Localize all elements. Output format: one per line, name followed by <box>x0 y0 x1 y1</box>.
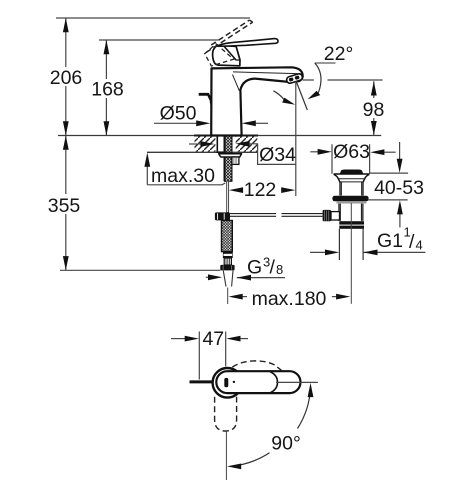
label O63 <box>333 141 370 163</box>
seal ring <box>332 196 368 202</box>
drain pop-up waste body <box>332 170 369 304</box>
hose connection nut G3/8 <box>220 265 234 271</box>
pull rod knob <box>199 93 212 108</box>
plug cap <box>340 170 363 174</box>
dimension G3/8 leader <box>206 274 285 280</box>
top view pull rod <box>190 380 213 383</box>
label 206 <box>50 67 83 89</box>
body below seal <box>339 204 363 221</box>
svg-text:G1: G1 <box>377 230 403 252</box>
thread rings <box>339 221 364 224</box>
pop-up tee fitting <box>215 212 230 220</box>
label O50 <box>160 103 197 125</box>
90 degree arc <box>227 383 313 469</box>
label O34 <box>259 144 296 166</box>
spout inner chamfer line <box>233 75 240 91</box>
counter bottom reference line <box>147 151 257 153</box>
dimension 47 arrows <box>171 336 248 342</box>
spout outlet extension line <box>295 82 297 197</box>
dimension O34 arrows <box>189 141 296 164</box>
faucet body and spout silhouette <box>211 67 303 135</box>
svg-text:Ø63: Ø63 <box>333 141 370 163</box>
mounting nut block <box>232 157 239 164</box>
svg-text:Ø50: Ø50 <box>160 103 197 125</box>
label 40-53 <box>374 177 424 199</box>
label 122 <box>244 179 277 201</box>
hose ribbed collar <box>224 258 231 265</box>
label 47 <box>202 328 224 350</box>
supply hose braided <box>222 221 233 252</box>
dimension 98 line <box>371 81 377 135</box>
svg-text:47: 47 <box>202 328 224 350</box>
tailpipe walls <box>339 229 363 260</box>
faucet center line below hose <box>227 288 229 305</box>
mounting shank threaded rod <box>224 136 232 181</box>
O63 extension lines <box>332 144 370 174</box>
svg-text:206: 206 <box>50 67 83 89</box>
water stream line <box>296 82 307 111</box>
handle lever blade solid <box>216 39 278 47</box>
svg-text:/: / <box>409 231 415 253</box>
aerator capsule <box>286 73 303 84</box>
label 22 degrees <box>315 43 353 65</box>
top view handle stadium <box>216 371 300 393</box>
reference line handle level (168) <box>99 39 218 41</box>
dimension 206 line <box>63 18 69 136</box>
hose tail lines <box>223 271 233 287</box>
svg-text:Ø34: Ø34 <box>259 144 296 166</box>
svg-text:max.180: max.180 <box>252 288 327 310</box>
svg-text:90°: 90° <box>271 433 301 455</box>
top view handle slot <box>224 378 235 387</box>
dimension 122 arrows <box>229 187 296 193</box>
pop-up rod vertical <box>227 181 229 213</box>
drain knurled knob <box>323 210 340 221</box>
top view horizontal reference line <box>276 381 318 383</box>
svg-text:/: / <box>270 257 276 279</box>
flange <box>334 174 370 182</box>
drain center line <box>350 203 352 304</box>
mounting shank smooth tube <box>217 136 224 152</box>
22 degree arc with arrow <box>306 63 321 102</box>
hose end reference line (355 bottom) <box>60 269 220 271</box>
svg-text:max.30: max.30 <box>151 165 215 187</box>
reference line top (206 level) <box>56 17 250 19</box>
dimension G1 1/4 <box>310 250 425 256</box>
stream small arc arrow <box>273 91 296 107</box>
svg-text:G: G <box>247 257 262 279</box>
label 90 degrees <box>271 433 301 455</box>
svg-text:122: 122 <box>244 179 277 201</box>
handle cap solid <box>213 46 240 66</box>
spout inner face line <box>233 72 298 74</box>
svg-text:98: 98 <box>363 99 385 121</box>
counter top reference line <box>58 135 381 137</box>
top view handle inner cap line <box>270 372 278 393</box>
svg-text:355: 355 <box>48 195 81 217</box>
top view base circle <box>213 368 243 398</box>
spout outlet level line (98 top) <box>303 79 383 81</box>
pop-up horizontal rod segment 1 <box>230 214 276 217</box>
dimension O50 arrows <box>154 120 268 126</box>
counter hatch left block <box>195 136 216 152</box>
handle raised dashed cap <box>205 44 234 66</box>
label 355 <box>48 195 81 217</box>
hose ferrule <box>223 252 233 258</box>
top view dashed handle down position <box>215 397 237 431</box>
svg-text:4: 4 <box>416 238 423 253</box>
dimension 168 line <box>104 40 110 136</box>
mounting washer <box>219 154 242 157</box>
handle raised dashed blade <box>206 20 253 52</box>
label max.30 <box>151 165 215 187</box>
label 168 <box>91 79 124 101</box>
label G3/8 <box>247 254 283 278</box>
neck walls <box>340 182 363 196</box>
label max.180 <box>252 288 327 310</box>
dimension max.30 leader <box>144 153 225 185</box>
dimension 40-53 <box>368 142 408 227</box>
top view dashed rotated handle <box>232 361 282 371</box>
dimension 47 extension lines <box>199 332 225 380</box>
handle neck line <box>236 59 240 61</box>
svg-text:22°: 22° <box>324 43 354 65</box>
top view vertical center line <box>225 431 227 481</box>
dimension max.180 <box>229 294 351 300</box>
svg-text:40-53: 40-53 <box>374 177 424 199</box>
pop-up horizontal rod segment 2 <box>282 214 323 217</box>
svg-text:168: 168 <box>91 79 124 101</box>
dimension 355 line <box>63 136 69 271</box>
label 98 <box>363 99 385 121</box>
counter hatch right block <box>236 136 258 152</box>
svg-text:8: 8 <box>276 262 283 277</box>
dimension O63 arrows <box>310 149 395 155</box>
label G1 1/4 <box>377 225 423 254</box>
